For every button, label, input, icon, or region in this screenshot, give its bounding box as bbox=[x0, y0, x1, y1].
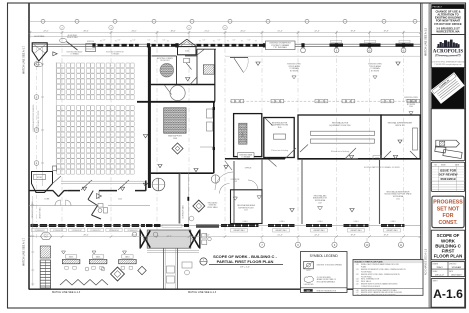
elevator room bbox=[234, 114, 262, 157]
svg-text:19'-8": 19'-8" bbox=[350, 31, 355, 33]
stage lower steps bbox=[147, 252, 199, 254]
bottom dimension line bbox=[30, 236, 420, 238]
svg-text:19'-8": 19'-8" bbox=[383, 31, 388, 33]
svg-text:21'-0": 21'-0" bbox=[204, 31, 209, 33]
svg-text:UNISEX TOILET 1104: UNISEX TOILET 1104 bbox=[32, 202, 34, 219]
door swing top left bbox=[59, 38, 66, 42]
conference table hatched bbox=[160, 63, 174, 77]
svg-text:1109: 1109 bbox=[278, 127, 282, 129]
training room bbox=[298, 115, 381, 159]
svg-text:PROJECT: PROJECT bbox=[433, 7, 443, 9]
svg-text:19'-8": 19'-8" bbox=[350, 234, 355, 236]
svg-text:22'-4": 22'-4" bbox=[314, 234, 319, 236]
svg-text:5'-0": 5'-0" bbox=[103, 40, 106, 42]
svg-text:06/17/2019: 06/17/2019 bbox=[451, 274, 462, 276]
match line left bbox=[28, 4, 30, 290]
lower rooms partitions bbox=[261, 159, 263, 224]
left dimension strip bbox=[36, 46, 38, 238]
door marker bottom bbox=[97, 194, 102, 199]
svg-text:1/8" = 1'-0": 1/8" = 1'-0" bbox=[240, 267, 250, 269]
small office room lower left bbox=[231, 190, 263, 224]
top dimension lines bbox=[30, 32, 421, 34]
scale date table bbox=[431, 262, 464, 277]
svg-text:TYP. THIS WALL: TYP. THIS WALL bbox=[273, 46, 287, 49]
svg-text:FLOOR PLAN: FLOOR PLAN bbox=[434, 254, 463, 259]
svg-text:5'-0": 5'-0" bbox=[133, 40, 136, 42]
wall columns bbox=[92, 43, 95, 47]
svg-text:EXISTENT TO EXISTING OPENING: EXISTENT TO EXISTING OPENING bbox=[317, 265, 343, 267]
svg-text:1.11: 1.11 bbox=[356, 269, 359, 271]
svg-text:24'-0": 24'-0" bbox=[131, 31, 136, 33]
storefront label box bbox=[266, 41, 296, 50]
svg-text:EXISTING STOREFRONT: EXISTING STOREFRONT bbox=[106, 51, 124, 53]
shelving grid bbox=[203, 65, 214, 74]
svg-text:ISSUE: ISSUE bbox=[441, 164, 446, 166]
split door circle corridor bbox=[211, 175, 219, 183]
auditorium left edge bbox=[55, 62, 57, 172]
svg-text:JANITOR 1105: JANITOR 1105 bbox=[39, 207, 42, 218]
svg-text:1.17: 1.17 bbox=[356, 292, 359, 294]
progress set stamp red bbox=[432, 196, 464, 227]
svg-text:T 508.842.9955 acropolisadgro: T 508.842.9955 acropolisadgroup.com bbox=[434, 64, 462, 66]
window mullion gaps bbox=[227, 225, 228, 227]
elec diamond bbox=[193, 200, 205, 212]
revolving door circle bbox=[152, 178, 165, 191]
svg-text:CORR.: CORR. bbox=[44, 199, 50, 201]
key plan box bbox=[431, 109, 464, 161]
round table bbox=[170, 85, 185, 100]
grid hexagon H2 bbox=[41, 233, 52, 240]
title block project header bar bbox=[431, 4, 464, 8]
auditorium seating grid bbox=[57, 63, 135, 174]
svg-text:1.15: 1.15 bbox=[356, 284, 359, 286]
top-left vestibule bump bbox=[32, 43, 47, 61]
svg-text:28'-6": 28'-6" bbox=[83, 234, 88, 236]
column grid lines vertical bbox=[61, 39, 63, 235]
auditorium bottom-left store bump bbox=[32, 172, 53, 193]
interior wall horizontal upper bbox=[152, 55, 177, 57]
lower window wall left part bbox=[31, 224, 38, 227]
svg-text:TO REMAIN - NO WORK: TO REMAIN - NO WORK bbox=[37, 110, 40, 130]
svg-text:STOREFRONT: STOREFRONT bbox=[90, 230, 100, 232]
lower window wall right part bbox=[221, 224, 259, 227]
svg-text:L4000 ROOMS: L4000 ROOMS bbox=[304, 284, 314, 286]
svg-text:EQUIPMENT ROOM 1110: EQUIPMENT ROOM 1110 bbox=[330, 125, 351, 127]
stair lower left bbox=[40, 246, 50, 258]
svg-text:22'-0": 22'-0" bbox=[43, 31, 48, 33]
svg-text:06/21/2019: 06/21/2019 bbox=[440, 177, 455, 181]
svg-text:EXISTING AUDITORIUM SEATING: EXISTING AUDITORIUM SEATING bbox=[32, 104, 35, 131]
svg-text:CORRIDOR: CORRIDOR bbox=[231, 179, 241, 181]
svg-text:CONDUITS IN FLOOR BOX: CONDUITS IN FLOOR BOX bbox=[361, 286, 380, 288]
title block project name box bbox=[431, 9, 464, 35]
svg-text:PROGRESS: PROGRESS bbox=[433, 199, 463, 205]
svg-text:SET NOT: SET NOT bbox=[437, 206, 460, 212]
door markers lower band bbox=[349, 155, 353, 158]
office room right bbox=[381, 115, 420, 159]
svg-text:22'-4": 22'-4" bbox=[314, 31, 319, 33]
svg-text:1100: 1100 bbox=[409, 106, 413, 108]
svg-text:A-1.6: A-1.6 bbox=[433, 287, 463, 301]
svg-text:ACROPOLIS: ACROPOLIS bbox=[433, 50, 464, 55]
svg-text:MATCH LINE SEE A-1.4: MATCH LINE SEE A-1.4 bbox=[52, 290, 81, 294]
match line right bbox=[420, 4, 422, 293]
svg-text:1.10: 1.10 bbox=[356, 264, 359, 266]
svg-text:FOR: FOR bbox=[443, 213, 454, 219]
svg-text:CONST.: CONST. bbox=[438, 220, 458, 226]
misc leader marks lower left bbox=[62, 251, 66, 254]
svg-text:STOR: STOR bbox=[37, 177, 43, 179]
corridor wall vertical bbox=[178, 173, 180, 223]
top exterior wall bbox=[32, 43, 421, 45]
svg-text:MATCH LINE SEE A-1.7: MATCH LINE SEE A-1.7 bbox=[22, 45, 26, 74]
work tables group 3 bbox=[65, 255, 77, 258]
svg-text:5'-0": 5'-0" bbox=[118, 40, 121, 42]
flag markers corridor bbox=[158, 165, 162, 168]
accordion partition zigzag bbox=[60, 280, 108, 286]
match line bottom bbox=[29, 288, 422, 290]
stage front lines bbox=[61, 180, 145, 182]
svg-text:PARTIAL FIRST FLOOR PLAN: PARTIAL FIRST FLOOR PLAN bbox=[217, 259, 274, 264]
flag marker conf bbox=[186, 78, 190, 82]
office desk bbox=[184, 59, 190, 63]
svg-text:WORCESTER, MA: WORCESTER, MA bbox=[436, 30, 459, 34]
svg-text:CHECKED: CHECKED bbox=[449, 263, 457, 265]
svg-text:1102: 1102 bbox=[118, 199, 122, 201]
svg-text:1.13: 1.13 bbox=[356, 279, 359, 281]
svg-text:NO WORK: NO WORK bbox=[371, 70, 380, 72]
symbol legend box bbox=[301, 252, 348, 293]
svg-text:EXISTING VESTIBULE: EXISTING VESTIBULE bbox=[67, 52, 83, 54]
diamond symbol lower bbox=[111, 267, 125, 281]
svg-text:48 linear feet of shelving: 48 linear feet of shelving bbox=[331, 150, 349, 153]
sheet title box bbox=[431, 230, 464, 260]
svg-text:MATCH LINE SEE A-1.7: MATCH LINE SEE A-1.7 bbox=[22, 237, 26, 266]
svg-text:5'-0": 5'-0" bbox=[218, 40, 221, 42]
storefront window dark segments bbox=[98, 44, 104, 47]
auditorium bottom wall bbox=[29, 190, 53, 192]
conference room wall lower bbox=[151, 84, 215, 86]
fixtures right of stage corridor bbox=[182, 262, 192, 268]
main vertical wall auditorium right bbox=[148, 47, 151, 188]
column grid bubbles bottom bbox=[261, 238, 263, 242]
corridor below stage bbox=[163, 249, 165, 289]
svg-text:SYMBOL LEGEND: SYMBOL LEGEND bbox=[310, 254, 339, 258]
dark label band below wall bbox=[196, 224, 219, 227]
conference rooms partitions bbox=[176, 56, 178, 85]
svg-text:1103: 1103 bbox=[233, 181, 237, 183]
svg-text:SHEET: SHEET bbox=[433, 281, 438, 283]
architect stamp black box bbox=[431, 68, 464, 109]
svg-text:21'-4": 21'-4" bbox=[277, 31, 282, 33]
hatched equipment area bbox=[164, 108, 186, 133]
stage X bracket left bbox=[141, 231, 151, 248]
entry vestibule top bbox=[178, 47, 197, 55]
lower rooms top wall bbox=[225, 158, 285, 160]
svg-text:EXISTING: EXISTING bbox=[87, 41, 95, 43]
drawing title bbox=[200, 258, 207, 265]
svg-text:STOREFRONT: STOREFRONT bbox=[72, 230, 82, 232]
svg-text:TRACI: TRACI bbox=[436, 266, 443, 269]
svg-text:OFFICE 1111: OFFICE 1111 bbox=[395, 125, 405, 127]
door arc lower corridor bbox=[220, 184, 230, 194]
svg-text:19'-8": 19'-8" bbox=[383, 234, 388, 236]
closet door upper left of open area bbox=[230, 57, 248, 59]
svg-text:1.18: 1.18 bbox=[356, 294, 359, 296]
svg-text:TYP: TYP bbox=[37, 64, 40, 66]
column grid bubbles top bbox=[60, 25, 64, 29]
svg-text:5'-0": 5'-0" bbox=[148, 40, 151, 42]
corridor doors middle bbox=[267, 158, 277, 167]
svg-text:1106: 1106 bbox=[173, 138, 177, 140]
svg-text:NO CHANGE SEE A-1.5: NO CHANGE SEE A-1.5 bbox=[424, 248, 427, 275]
svg-text:STOREFRONT: STOREFRONT bbox=[53, 230, 63, 232]
svg-text:5'-0": 5'-0" bbox=[233, 40, 236, 42]
svg-text:STOREFRONT: STOREFRONT bbox=[34, 230, 44, 232]
svg-text:1120: 1120 bbox=[375, 158, 379, 160]
svg-text:18'-6": 18'-6" bbox=[170, 31, 175, 33]
door swings mid bbox=[190, 77, 198, 85]
lower band partition left bbox=[233, 161, 235, 224]
svg-text:1121: 1121 bbox=[396, 198, 400, 200]
svg-text:REMOVE EXIST DOOR & INFILL OPE: REMOVE EXIST DOOR & INFILL OPENING SHOWN… bbox=[361, 274, 400, 276]
operable wall tick row bbox=[230, 100, 421, 102]
svg-text:5'-0": 5'-0" bbox=[163, 40, 166, 42]
svg-text:1/8"=1'-0": 1/8"=1'-0" bbox=[435, 274, 444, 276]
auditorium right wall bbox=[145, 181, 147, 191]
svg-text:21'-4": 21'-4" bbox=[277, 234, 282, 236]
door arcs corridor bbox=[55, 200, 61, 206]
flag markers open area bbox=[256, 62, 260, 65]
top survey line with node circles bbox=[30, 20, 421, 22]
window band over stage zone bbox=[146, 224, 153, 227]
svg-text:MATCH LINE SEE A-1.5: MATCH LINE SEE A-1.5 bbox=[423, 27, 427, 56]
svg-text:STOREFRONT: STOREFRONT bbox=[109, 230, 119, 232]
small circle corridor bbox=[189, 216, 194, 221]
svg-text:5'-0": 5'-0" bbox=[203, 40, 206, 42]
svg-text:SPS/EAW: SPS/EAW bbox=[452, 266, 461, 269]
svg-text:EXIST: EXIST bbox=[306, 270, 310, 272]
stage platform bbox=[147, 230, 191, 248]
toilet chase zigzag bbox=[88, 191, 93, 200]
issue table bbox=[431, 162, 464, 191]
svg-text:1.12: 1.12 bbox=[356, 274, 359, 276]
wall mid horizontal bbox=[151, 172, 214, 174]
title block divider bbox=[429, 3, 431, 308]
left lower dim line bbox=[32, 196, 34, 286]
door jambs on right wall bbox=[213, 107, 215, 110]
svg-text:EXISTING: EXISTING bbox=[209, 205, 217, 207]
svg-text:FIT-OUT DCF OFFICE: FIT-OUT DCF OFFICE bbox=[434, 22, 462, 26]
svg-text:CORRIDOR 1103: CORRIDOR 1103 bbox=[183, 205, 185, 218]
svg-text:1.16: 1.16 bbox=[356, 290, 359, 292]
sheet number A-1.6 bbox=[431, 279, 464, 308]
corridor lower wall bbox=[29, 205, 96, 207]
key notes box bbox=[353, 260, 423, 296]
architect logo ACROPOLIS bbox=[431, 35, 464, 68]
small fixtures right of seat support bbox=[207, 109, 213, 118]
svg-text:NO WORK: NO WORK bbox=[290, 70, 299, 72]
svg-text:STOREFRONT: STOREFRONT bbox=[127, 230, 137, 232]
svg-text:28'-6": 28'-6" bbox=[83, 31, 88, 33]
meeting room bbox=[264, 118, 294, 158]
svg-text:5'-0": 5'-0" bbox=[248, 40, 251, 42]
stage X bracket right bbox=[189, 231, 199, 248]
svg-text:REMOVE STOREFRONT DOOR & INFIL: REMOVE STOREFRONT DOOR & INFILL OPENING … bbox=[361, 269, 406, 271]
svg-text:1117: 1117 bbox=[244, 210, 248, 212]
rear wall segment auditorium bbox=[137, 101, 215, 103]
stage side fixtures bbox=[202, 234, 207, 239]
svg-text:ROOM 1107: ROOM 1107 bbox=[160, 60, 169, 62]
window assembly left bbox=[86, 44, 96, 52]
svg-text:MATCH LINE SEE A-1.4: MATCH LINE SEE A-1.4 bbox=[188, 290, 217, 294]
storefront window assemblies right bbox=[330, 43, 344, 46]
svg-text:1.14: 1.14 bbox=[356, 281, 359, 283]
svg-text:1119: 1119 bbox=[318, 202, 322, 204]
library wall labels bbox=[231, 229, 248, 232]
stage grid bubbles bbox=[132, 232, 136, 236]
diamond symbol bbox=[172, 143, 183, 154]
flag markers auditorium bbox=[82, 187, 86, 190]
svg-text:20'-0": 20'-0" bbox=[240, 31, 245, 33]
svg-text:OFFICE: OFFICE bbox=[245, 168, 252, 170]
open area ceiling line bbox=[225, 55, 421, 57]
wall seat support right bbox=[213, 102, 215, 173]
auditorium front line bbox=[62, 55, 148, 57]
svg-text:21'-0": 21'-0" bbox=[204, 234, 209, 236]
